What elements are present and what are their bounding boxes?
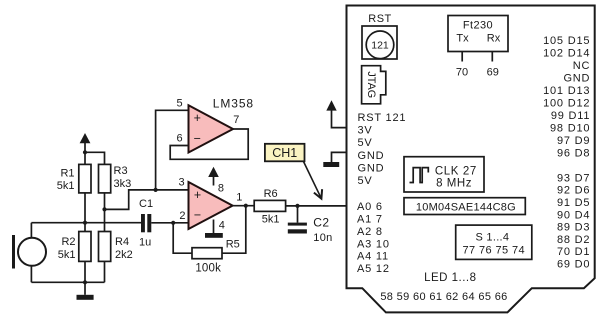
svg-text:RST 121: RST 121 bbox=[358, 112, 407, 124]
svg-text:NC: NC bbox=[573, 60, 591, 72]
svg-text:5k1: 5k1 bbox=[57, 180, 75, 192]
RST button S5 (121) bbox=[362, 26, 397, 59]
svg-text:3: 3 bbox=[179, 177, 185, 189]
resistor R1 bbox=[57, 164, 91, 193]
node pin5 column junction bbox=[154, 188, 158, 192]
svg-text:GND: GND bbox=[563, 72, 590, 84]
wire R2 top lead bbox=[84, 223, 86, 232]
node bias junction bbox=[102, 207, 106, 211]
svg-text:A5 12: A5 12 bbox=[357, 263, 390, 275]
svg-text:Tx: Tx bbox=[456, 32, 469, 44]
svg-text:102 D14: 102 D14 bbox=[543, 47, 590, 59]
wire mic bottom lead bbox=[30, 266, 32, 283]
svg-text:R4: R4 bbox=[115, 236, 129, 248]
svg-text:3k3: 3k3 bbox=[114, 178, 132, 190]
svg-text:105 D15: 105 D15 bbox=[543, 35, 590, 47]
svg-text:+: + bbox=[194, 188, 201, 202]
node bottom rail junction bbox=[83, 280, 87, 284]
wire supply node to R1 top bbox=[84, 152, 86, 164]
wire mid rail left (mic to C1) bbox=[31, 222, 141, 224]
svg-text:92 D6: 92 D6 bbox=[557, 185, 590, 197]
svg-text:GND: GND bbox=[358, 150, 385, 162]
capacitor C2 bbox=[288, 206, 333, 244]
svg-text:88 D2: 88 D2 bbox=[557, 234, 590, 246]
svg-text:7: 7 bbox=[233, 114, 239, 126]
FPGA part number box bbox=[404, 198, 525, 215]
svg-text:2: 2 bbox=[179, 210, 185, 222]
resistor R4 bbox=[99, 232, 133, 262]
wire R4 bottom lead bbox=[104, 261, 106, 282]
wire bias node to op-amp pin 3 bbox=[105, 190, 189, 210]
svg-text:8: 8 bbox=[218, 183, 224, 195]
svg-text:5V: 5V bbox=[358, 175, 373, 187]
power arrow pin 8 bbox=[208, 167, 219, 186]
resistor R6 bbox=[254, 188, 285, 225]
wire R3 bottom to bias node bbox=[104, 193, 106, 210]
svg-text:93 D7: 93 D7 bbox=[557, 172, 590, 184]
node C2 junction bbox=[295, 204, 299, 208]
svg-text:121: 121 bbox=[371, 40, 389, 52]
svg-text:LM358: LM358 bbox=[213, 97, 254, 111]
svg-text:Ft230: Ft230 bbox=[463, 19, 493, 31]
svg-text:S 1...4: S 1...4 bbox=[475, 231, 509, 243]
svg-text:6: 6 bbox=[177, 132, 183, 144]
node supply junction bbox=[83, 150, 87, 154]
svg-text:90 D4: 90 D4 bbox=[557, 209, 590, 221]
svg-text:91 D5: 91 D5 bbox=[557, 197, 590, 209]
wire R5 right lead bbox=[222, 206, 246, 254]
Ft230 USB bridge bbox=[448, 16, 508, 52]
svg-text:−: − bbox=[194, 208, 201, 222]
svg-text:5V: 5V bbox=[358, 137, 373, 149]
wire mic top lead bbox=[30, 223, 32, 238]
wire bottom rail bbox=[31, 281, 104, 283]
svg-text:69: 69 bbox=[487, 66, 499, 78]
svg-text:A1 7: A1 7 bbox=[357, 214, 383, 226]
svg-text:77 76 75 74: 77 76 75 74 bbox=[463, 245, 526, 257]
svg-text:2k2: 2k2 bbox=[115, 249, 133, 261]
node output junction bbox=[244, 204, 248, 208]
svg-text:1: 1 bbox=[236, 192, 242, 204]
svg-text:R3: R3 bbox=[114, 165, 128, 177]
wire R4 top lead (crosses mid rail) bbox=[104, 209, 106, 231]
wire mid rail C1 to pin 2 bbox=[151, 222, 188, 224]
clock CLK 27 box bbox=[404, 157, 484, 192]
svg-text:R6: R6 bbox=[264, 188, 278, 200]
capacitor C1 bbox=[139, 198, 153, 249]
connector JTAG bbox=[362, 66, 386, 104]
svg-text:A4 11: A4 11 bbox=[357, 251, 389, 263]
wire op-amp output bbox=[233, 205, 255, 207]
op-amp U1a (lower, LM358) bbox=[189, 182, 233, 229]
svg-text:RST: RST bbox=[368, 13, 392, 25]
pin list left group B (ADC inputs) bbox=[357, 201, 390, 275]
svg-text:99 D11: 99 D11 bbox=[551, 110, 590, 122]
microphone MIC1 bbox=[14, 235, 47, 269]
svg-text:98 D10: 98 D10 bbox=[550, 122, 590, 134]
svg-text:5: 5 bbox=[177, 98, 183, 110]
resistor R5 bbox=[192, 238, 240, 274]
svg-text:+: + bbox=[194, 111, 201, 125]
svg-text:A0 6: A0 6 bbox=[357, 201, 383, 213]
svg-text:5k1: 5k1 bbox=[58, 249, 76, 261]
node CH1 callout bbox=[265, 144, 322, 199]
svg-text:−: − bbox=[194, 132, 201, 146]
svg-text:101 D13: 101 D13 bbox=[543, 85, 590, 97]
svg-text:70 D1: 70 D1 bbox=[557, 246, 590, 258]
ground pin 4 bbox=[205, 220, 223, 238]
svg-text:10M04SAE144C8G: 10M04SAE144C8G bbox=[416, 201, 516, 213]
svg-text:97 D9: 97 D9 bbox=[557, 135, 590, 147]
wire R6 to FPGA A0 bbox=[286, 205, 347, 207]
svg-text:A2 8: A2 8 bbox=[357, 226, 383, 238]
wire supply node to R3 top bbox=[85, 152, 105, 164]
svg-text:3V: 3V bbox=[358, 125, 373, 137]
pin list right group 2 bbox=[557, 172, 590, 270]
resistor R3 bbox=[99, 164, 132, 193]
svg-text:1u: 1u bbox=[139, 236, 151, 248]
wire Tx lead pin 70 bbox=[461, 52, 463, 62]
svg-text:100 D12: 100 D12 bbox=[543, 97, 590, 109]
svg-text:70: 70 bbox=[456, 66, 468, 78]
svg-text:58 59 60 61 62 64 65 66: 58 59 60 61 62 64 65 66 bbox=[380, 291, 507, 303]
svg-text:4: 4 bbox=[219, 220, 225, 232]
wire Rx lead pin 69 bbox=[491, 52, 493, 62]
node mid rail R1/R2 junction bbox=[83, 221, 87, 225]
svg-text:R5: R5 bbox=[226, 238, 240, 250]
svg-text:A3 10: A3 10 bbox=[357, 238, 390, 250]
svg-text:Rx: Rx bbox=[487, 32, 501, 44]
pin list right group 1 bbox=[543, 35, 590, 159]
svg-text:89 D3: 89 D3 bbox=[557, 222, 590, 234]
svg-text:JTAG: JTAG bbox=[365, 71, 377, 98]
svg-text:8 MHz: 8 MHz bbox=[436, 178, 472, 190]
svg-text:C1: C1 bbox=[139, 198, 153, 210]
svg-text:10n: 10n bbox=[313, 232, 332, 244]
svg-text:GND: GND bbox=[358, 162, 385, 174]
svg-text:5k1: 5k1 bbox=[262, 214, 280, 226]
wire R1 bottom to mid rail bbox=[84, 193, 86, 223]
resistor R2 bbox=[58, 232, 91, 262]
svg-text:69 D0: 69 D0 bbox=[557, 259, 590, 271]
ground (FPGA GND pin) bbox=[323, 152, 346, 167]
svg-text:C2: C2 bbox=[313, 216, 329, 230]
svg-text:LED 1...8: LED 1...8 bbox=[424, 272, 476, 284]
node pin 2 / R5 junction bbox=[171, 221, 175, 225]
svg-text:CH1: CH1 bbox=[272, 146, 297, 160]
wire R2 bottom lead bbox=[84, 261, 86, 282]
ground (mic divider) bbox=[77, 282, 94, 300]
power arrow (mic bias supply) bbox=[80, 133, 91, 152]
pin list left group A bbox=[358, 112, 407, 187]
wire R5 left lead bbox=[173, 223, 192, 253]
op-amp U1b (upper, LM358) bbox=[189, 105, 234, 152]
svg-text:100k: 100k bbox=[195, 262, 221, 274]
wire bias node to op-amp pin 5 bbox=[156, 110, 189, 190]
svg-text:R1: R1 bbox=[60, 167, 74, 179]
svg-text:CLK 27: CLK 27 bbox=[435, 165, 477, 177]
power arrow 3V (FPGA supply) bbox=[326, 100, 346, 127]
FPGA module U2 outline bbox=[347, 6, 595, 313]
switches S1..4 box bbox=[456, 225, 532, 259]
wire pin 6 feedback loop bbox=[170, 129, 248, 159]
svg-text:R2: R2 bbox=[61, 236, 75, 248]
svg-text:96 D8: 96 D8 bbox=[557, 147, 590, 159]
